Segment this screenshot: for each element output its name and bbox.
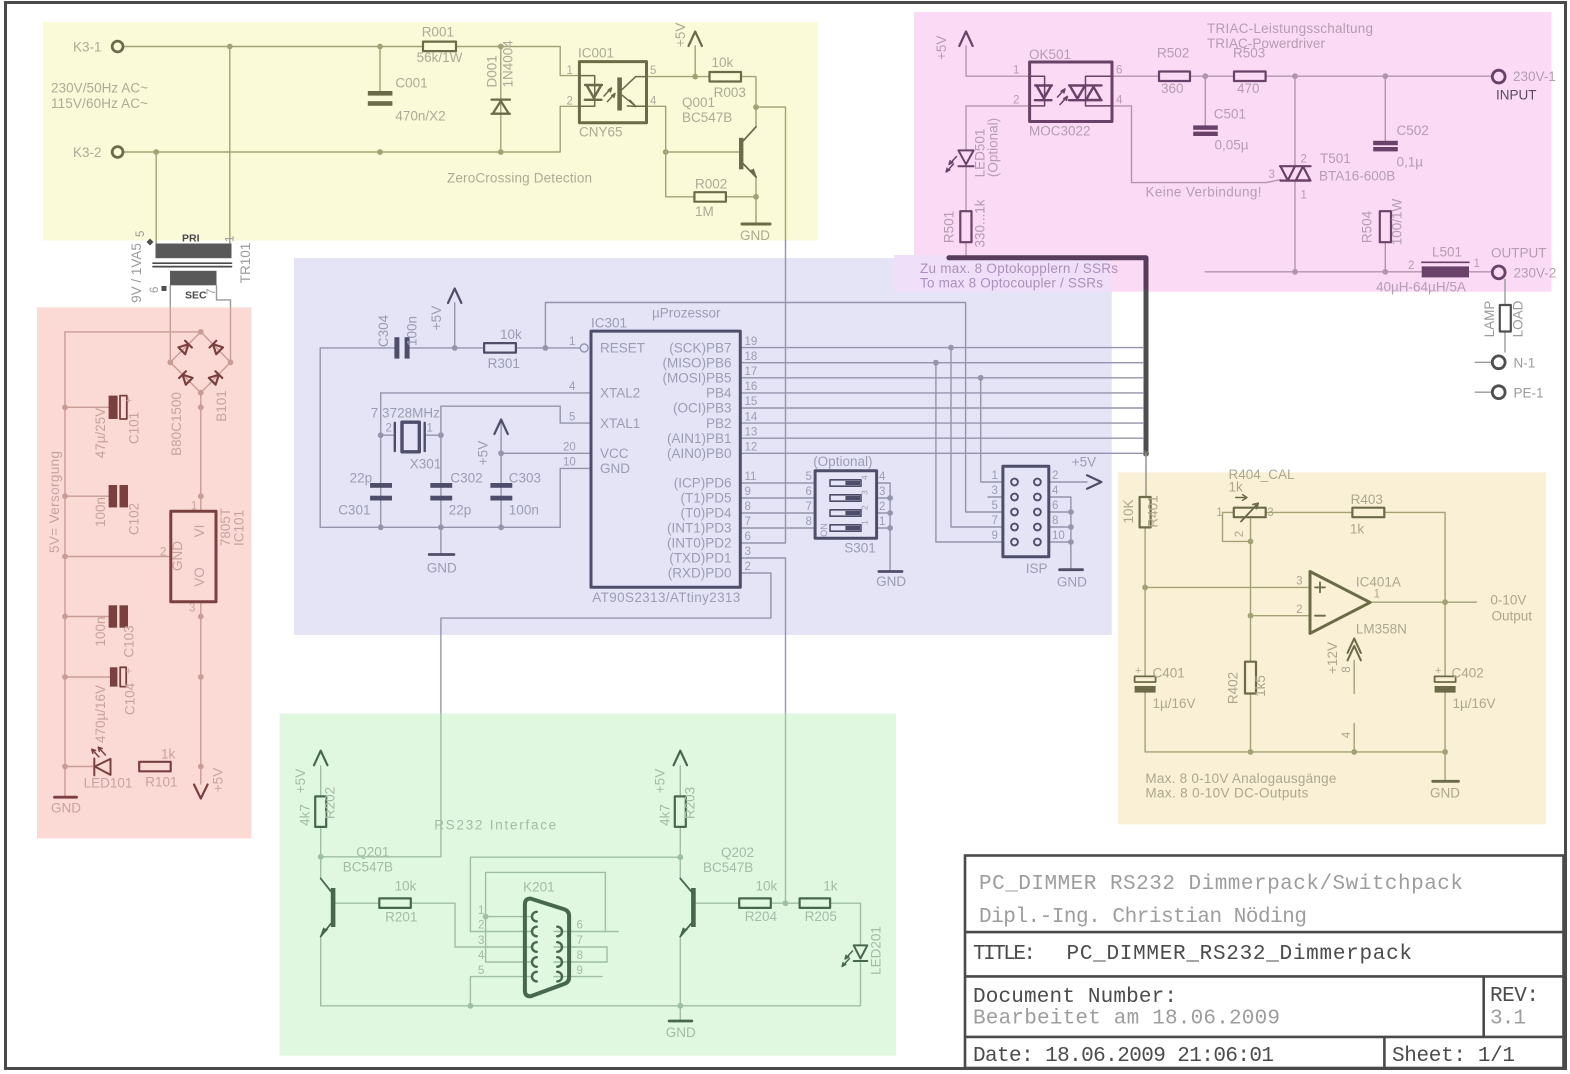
svg-text:56k/1W: 56k/1W (417, 50, 463, 65)
wire IC101 pin2 GND row (65, 556, 171, 558)
wire R402 to gnd rail (1250, 694, 1252, 752)
wire R501 to bus (965, 242, 967, 255)
optocoupler IC001 box (579, 62, 646, 123)
svg-text:PB2: PB2 (706, 416, 732, 431)
+5V arrow yellow (689, 32, 702, 47)
wire T501 pin1 (1294, 181, 1296, 272)
wire C101 row (65, 406, 109, 408)
svg-text:K201: K201 (523, 879, 555, 894)
svg-text:LOAD: LOAD (1511, 300, 1526, 337)
svg-text:MOC3022: MOC3022 (1029, 123, 1091, 138)
triac T501 (1280, 166, 1311, 180)
svg-text:2: 2 (1301, 154, 1307, 166)
wire +5V R202 (320, 766, 322, 797)
pin header ISP box (1003, 466, 1049, 556)
svg-text:230V-2: 230V-2 (1514, 265, 1557, 280)
svg-text:6: 6 (745, 531, 751, 543)
wire D001 branch (500, 47, 502, 153)
resistor R002 (694, 192, 726, 202)
wire X301 pin1 column (440, 406, 442, 527)
svg-text:47µ/25V: 47µ/25V (93, 408, 108, 459)
svg-text:6: 6 (1116, 65, 1122, 77)
wire K201 pin8 stub (554, 961, 607, 963)
wire gnd rail bottom (320, 526, 560, 528)
svg-text:7: 7 (992, 515, 998, 527)
diode D001 (492, 100, 511, 114)
+5V arrow C303 (494, 420, 507, 435)
wire C502 branch (1384, 76, 1386, 141)
S301 switch 2 (830, 510, 861, 516)
title block REV divider (1482, 976, 1485, 1037)
svg-text:100/1W: 100/1W (1390, 198, 1405, 245)
wire C304 to R301 (410, 347, 484, 349)
svg-text:2: 2 (386, 423, 392, 435)
svg-text:VO: VO (192, 567, 207, 587)
svg-text:(INT0)PD2: (INT0)PD2 (667, 536, 732, 551)
wire -in node to R402 (1250, 616, 1252, 662)
wire PD6 to S301 (740, 482, 815, 484)
region background: TRIAC pink (914, 12, 1552, 292)
svg-text:R504: R504 (1360, 210, 1375, 243)
microcontroller IC301 box (591, 331, 740, 587)
wire K201 pin7 stub (554, 946, 607, 948)
wire ISP tap SCK (951, 348, 1003, 527)
svg-text:OUTPUT: OUTPUT (1491, 245, 1547, 260)
svg-text:12: 12 (745, 442, 758, 454)
svg-text:GND: GND (1430, 786, 1460, 801)
svg-text:(AIN1)PB1: (AIN1)PB1 (667, 431, 732, 446)
svg-text:(TXD)PD1: (TXD)PD1 (669, 551, 731, 566)
wire GND pin10 (560, 468, 591, 527)
svg-text:TRIAC-Powerdriver: TRIAC-Powerdriver (1207, 36, 1326, 51)
svg-text:1µ/16V: 1µ/16V (1453, 696, 1496, 711)
svg-text:C302: C302 (450, 471, 482, 486)
svg-text:1: 1 (569, 336, 575, 348)
wire R502 to R503 (1190, 75, 1234, 77)
svg-text:1: 1 (992, 470, 998, 482)
svg-text:B80C1500: B80C1500 (169, 392, 184, 456)
capacitor C303 (490, 483, 512, 501)
svg-text:GND: GND (876, 574, 906, 589)
S301 switch 3 (830, 495, 861, 501)
svg-text:XTAL2: XTAL2 (600, 386, 640, 401)
svg-text:360: 360 (1161, 81, 1184, 96)
svg-text:3.1: 3.1 (1490, 1008, 1526, 1031)
region background: note lavender (894, 255, 1112, 292)
svg-text:1k: 1k (161, 746, 176, 761)
svg-text:(Optional): (Optional) (813, 454, 872, 469)
svg-text:LED201: LED201 (869, 926, 884, 975)
resistor R402 (1245, 662, 1256, 694)
capacitor C402 (1435, 676, 1456, 682)
svg-text:8: 8 (1052, 515, 1058, 527)
wire LED501 to R501 (965, 168, 967, 212)
wire Q201 emitter (320, 937, 322, 1006)
svg-text:C501: C501 (1214, 106, 1246, 121)
transformer TR101 core (153, 263, 232, 266)
bus end dot (1143, 451, 1149, 457)
svg-text:16: 16 (745, 381, 758, 393)
wire gnd rail analog (1145, 751, 1445, 753)
svg-text:8: 8 (745, 501, 751, 513)
wire PB2 line (740, 422, 1143, 424)
svg-text:+5V: +5V (673, 23, 688, 47)
wire K201 pin9 stub (554, 976, 602, 978)
svg-text:Max. 8 0-10V Analogausgänge: Max. 8 0-10V Analogausgänge (1145, 771, 1336, 786)
ground GND analog (1433, 780, 1459, 783)
terminal 230V-2 (1492, 266, 1505, 279)
svg-text:6: 6 (149, 287, 161, 293)
resistor R003 (710, 72, 742, 82)
wire PD2 from zerocross (740, 241, 785, 544)
svg-text:CNY65: CNY65 (579, 125, 623, 140)
svg-text:1M: 1M (695, 204, 714, 219)
svg-text:1: 1 (225, 236, 237, 242)
S301 switch digits (860, 475, 870, 525)
wire IC001 pin5 to R003 (647, 76, 710, 78)
svg-text:ON: ON (819, 523, 829, 537)
svg-text:1: 1 (1216, 507, 1222, 519)
svg-text:RS232 Interface: RS232 Interface (434, 817, 556, 832)
svg-text:R205: R205 (805, 909, 837, 924)
terminal 230V-1 (1492, 70, 1505, 83)
svg-text:C104: C104 (123, 682, 138, 715)
svg-text:3: 3 (1269, 169, 1275, 181)
svg-text:BC547B: BC547B (703, 860, 753, 875)
wire R401 to +in node (1144, 527, 1146, 587)
wire Q201 collector (320, 857, 322, 879)
svg-text:Q001: Q001 (682, 95, 715, 110)
svg-text:18: 18 (745, 351, 758, 363)
ground GND C302 (429, 553, 454, 556)
svg-text:GND: GND (1057, 574, 1087, 589)
terminal PE-1 (1492, 386, 1505, 399)
svg-text:22p: 22p (449, 503, 472, 518)
wire pin7 pin8 tie (606, 947, 608, 962)
svg-text:Output: Output (1492, 609, 1533, 624)
svg-text:5V= Versorgung: 5V= Versorgung (47, 451, 62, 553)
svg-text:2: 2 (478, 920, 484, 932)
op-amp IC401A (1310, 572, 1370, 634)
svg-text:4: 4 (1116, 94, 1123, 106)
svg-text:(OCI)PB3: (OCI)PB3 (673, 401, 732, 416)
wire C104 row (65, 676, 110, 678)
bridge diamond outline (170, 332, 230, 393)
svg-text:Dipl.-Ing. Christian Nöding: Dipl.-Ing. Christian Nöding (979, 906, 1307, 929)
+5V arrow R202 (314, 751, 327, 766)
RESET bubble (580, 344, 588, 352)
svg-text:0,05µ: 0,05µ (1215, 138, 1249, 153)
svg-text:C101: C101 (127, 412, 142, 444)
OK501 internal LED (1030, 76, 1045, 106)
svg-text:17: 17 (745, 366, 758, 378)
svg-text:5: 5 (806, 471, 812, 483)
OK501 internal triac (1086, 76, 1113, 106)
svg-text:BC547B: BC547B (343, 860, 393, 875)
svg-text:XTAL1: XTAL1 (600, 416, 640, 431)
wire +5V to OK501 pin1 (966, 46, 1030, 76)
wire ISP right tie (1049, 497, 1071, 569)
wire base node down to R002 (666, 152, 695, 197)
svg-text:10k: 10k (712, 55, 734, 70)
svg-text:+5V: +5V (293, 769, 308, 793)
svg-text:R101: R101 (145, 774, 177, 789)
svg-text:C401: C401 (1153, 666, 1185, 681)
resistor R101 (139, 762, 171, 772)
wire Q202 collector (679, 857, 681, 878)
voltage regulator IC101 (171, 511, 216, 602)
wire PD1 drop green (785, 714, 787, 904)
transformer TR101 primary winding (156, 244, 232, 259)
svg-text:1: 1 (1374, 588, 1380, 600)
svg-text:IC401A: IC401A (1356, 574, 1401, 589)
wire PRI drop 1 (229, 47, 231, 244)
svg-text:3: 3 (478, 935, 484, 947)
wire L501 to 230V-2 (1469, 271, 1492, 273)
svg-text:Sheet: 1/1: Sheet: 1/1 (1392, 1045, 1515, 1068)
svg-text:4: 4 (478, 950, 485, 962)
svg-text:100n: 100n (93, 497, 108, 527)
wire R504 to output rail (1384, 242, 1386, 271)
svg-text:OK501: OK501 (1029, 47, 1071, 62)
svg-text:1: 1 (879, 516, 885, 528)
svg-text:4: 4 (650, 96, 657, 108)
capacitor C102 (109, 485, 128, 507)
svg-text:(Optional): (Optional) (986, 118, 1001, 177)
K201 pin hooks (532, 912, 562, 982)
wire C102 row (65, 495, 109, 497)
svg-text:D001: D001 (485, 55, 500, 87)
wire GND stem rail (64, 767, 66, 797)
ISP pin rings (1011, 479, 1041, 546)
wire R404 pin1 loop (1223, 512, 1251, 541)
wire PB4 line (740, 392, 1143, 394)
svg-text:R201: R201 (385, 909, 417, 924)
svg-text:9: 9 (745, 486, 751, 498)
svg-text:BC547B: BC547B (682, 110, 732, 125)
wire PB6 line (740, 362, 1143, 364)
resistor R001 (423, 42, 456, 52)
svg-text:230V-1: 230V-1 (1513, 69, 1556, 84)
wire ISP tap MISO (936, 363, 1003, 542)
svg-text:µProzessor: µProzessor (652, 306, 721, 321)
svg-text:K3-2: K3-2 (73, 145, 102, 160)
svg-text:(T0)PD4: (T0)PD4 (680, 506, 731, 521)
svg-text:230V/50Hz AC~: 230V/50Hz AC~ (51, 80, 148, 95)
svg-text:R403: R403 (1351, 492, 1383, 507)
svg-text:2: 2 (879, 501, 885, 513)
wire OK501 pin4 to T501 gate (1112, 106, 1281, 183)
svg-text:LAMP: LAMP (1482, 301, 1497, 338)
wire bridge top to left rail (65, 331, 201, 333)
wire K201 pin2 to Q202 collector (470, 857, 680, 931)
wire -in (1251, 615, 1311, 617)
resistor R301 (484, 343, 516, 353)
junction dots pink (1202, 73, 1208, 79)
svg-text:4k7: 4k7 (298, 804, 313, 826)
terminal K3-1 (112, 41, 123, 52)
wire +5V stem (694, 46, 696, 77)
wire +5V stem R301 (454, 303, 456, 348)
transistor Q202 (691, 888, 696, 927)
resistor R205 (800, 898, 831, 908)
svg-text:1µ/16V: 1µ/16V (1153, 696, 1196, 711)
+5V arrow down red (194, 785, 208, 799)
wire R205 to LED201 (830, 903, 860, 944)
resistor R504 (1380, 211, 1391, 242)
title block Sheet divider (1383, 1037, 1386, 1069)
wire PB3 line (740, 407, 1143, 409)
title block row line 3 (965, 1036, 1564, 1039)
svg-text:2: 2 (1296, 604, 1302, 616)
svg-text:R001: R001 (422, 25, 454, 40)
svg-text:100n: 100n (93, 616, 108, 646)
LED201 light arrows (842, 951, 852, 967)
+5V arrow ISP (1087, 475, 1101, 488)
wire SEC left into bridge (169, 307, 171, 362)
svg-text:4: 4 (569, 381, 576, 393)
+5V arrow R203 (674, 751, 687, 766)
resistor R401 (1140, 497, 1151, 527)
svg-text:BTA16-600B: BTA16-600B (1319, 168, 1395, 183)
wire IC001 pin4 to base node (647, 106, 740, 152)
title block outer box (965, 856, 1564, 1069)
svg-text:AT90S2313/ATtiny2313: AT90S2313/ATtiny2313 (592, 590, 740, 605)
wire PD3 to S301 (740, 527, 815, 529)
svg-text:22p: 22p (350, 471, 373, 486)
capacitor C501 (1193, 125, 1218, 136)
wire ISP pin10 stub (1049, 541, 1071, 543)
wire GND stem Q202 (679, 1006, 681, 1020)
svg-text:13: 13 (745, 426, 758, 438)
svg-text:0-10V: 0-10V (1490, 592, 1526, 607)
svg-text:To max 8 Optocoupler / SSRs: To max 8 Optocoupler / SSRs (920, 275, 1103, 290)
resistor R202 (315, 796, 326, 827)
svg-text:1: 1 (1301, 190, 1307, 202)
LED LED201 (854, 945, 868, 961)
svg-text:C502: C502 (1397, 123, 1429, 138)
wire ISP tap MOSI (981, 378, 1003, 482)
svg-text:GND: GND (427, 561, 457, 576)
wire N-1 stub (1475, 361, 1492, 363)
transformer TR101 secondary winding (170, 271, 217, 286)
LED101 light arrows (92, 747, 106, 757)
svg-text:GND: GND (51, 801, 81, 816)
svg-text:PE-1: PE-1 (1514, 385, 1544, 400)
svg-text:GND: GND (600, 461, 630, 476)
svg-text:10: 10 (1052, 530, 1065, 542)
svg-text:IC101: IC101 (232, 510, 247, 546)
bus to optocouplers (pink part) (949, 258, 1146, 292)
svg-text:R402: R402 (1225, 672, 1240, 704)
svg-text:1: 1 (860, 520, 870, 525)
svg-text:4: 4 (1341, 731, 1353, 738)
svg-text:LED101: LED101 (84, 776, 133, 791)
transformer pin marker 6 (162, 286, 167, 291)
wire Q201 base to R201 (336, 902, 380, 904)
wire C304 left branch to gnd rail (320, 348, 395, 527)
resistor R203 (675, 796, 686, 827)
capacitor C101 (109, 396, 118, 419)
svg-text:2: 2 (745, 561, 751, 573)
svg-text:C102: C102 (127, 503, 142, 535)
terminal N-1 (1492, 356, 1505, 369)
svg-text:8: 8 (577, 950, 583, 962)
wire PD0 to RS232 (441, 573, 771, 714)
wire bus to R401 (1145, 454, 1147, 497)
svg-text:C103: C103 (122, 625, 137, 657)
svg-text:(SCK)PB7: (SCK)PB7 (669, 340, 731, 355)
svg-text:(T1)PD5: (T1)PD5 (680, 491, 731, 506)
wire pin4 (1353, 724, 1355, 752)
wire ISP pin2 +5V (1049, 481, 1087, 483)
svg-text:1k5: 1k5 (1253, 675, 1268, 697)
junction dots blue (452, 345, 458, 351)
wire PE-1 stub (1475, 391, 1492, 393)
svg-text:5: 5 (650, 65, 656, 77)
svg-text:S301: S301 (844, 541, 876, 556)
capacitor C304 (394, 337, 409, 358)
svg-text:3: 3 (860, 490, 870, 495)
svg-text:1N4004: 1N4004 (501, 40, 516, 88)
svg-text:(RXD)PD0: (RXD)PD0 (668, 566, 732, 581)
wire pin1 tie to pin6 (486, 872, 606, 931)
wire pin1 tie to pin4 (486, 917, 531, 962)
wire K201 pin6 stub (554, 931, 618, 933)
wire +in (1145, 586, 1310, 588)
svg-text:8: 8 (806, 516, 812, 528)
svg-text:1: 1 (427, 423, 433, 435)
ground GND Q202 (669, 1020, 692, 1023)
wire R403 to feedback (1384, 512, 1445, 602)
svg-text:470: 470 (1237, 81, 1260, 96)
wire left rail (64, 332, 66, 767)
OK501 light arrow (1058, 89, 1068, 105)
svg-text:X301: X301 (410, 457, 442, 472)
svg-text:+: + (126, 666, 132, 678)
svg-text:C303: C303 (509, 471, 541, 486)
transistor Q201 (331, 888, 336, 927)
junction dots yellow (227, 44, 233, 50)
svg-text:1: 1 (478, 905, 484, 917)
wire opamp output (1370, 601, 1476, 603)
wire +5V column bottom (200, 677, 202, 784)
bridge rectifier B101 diodes (178, 341, 191, 354)
+5V arrow R301 (448, 289, 461, 304)
svg-text:4: 4 (1052, 485, 1059, 497)
wire PB7 line (740, 347, 1143, 349)
wire C001 branch (379, 47, 381, 91)
svg-text:7: 7 (745, 516, 751, 528)
svg-text:14: 14 (745, 411, 758, 423)
svg-text:1k: 1k (1229, 480, 1244, 495)
K201 pin numbers (478, 905, 583, 977)
+12V arrow (1348, 638, 1361, 660)
svg-text:Max. 8 0-10V DC-Outputs: Max. 8 0-10V DC-Outputs (1145, 785, 1308, 800)
junction dots green (318, 854, 324, 860)
capacitor C103 (109, 605, 128, 627)
wire OK501 pin6 to R502 (1112, 75, 1159, 77)
svg-text:11: 11 (745, 471, 757, 483)
wire R204 to R205 (771, 902, 800, 904)
svg-text:0,1µ: 0,1µ (1397, 155, 1424, 170)
svg-text:10: 10 (563, 457, 576, 469)
svg-text:7: 7 (806, 501, 812, 513)
wire K3-2 bottom AC rail (123, 106, 579, 152)
svg-text:T501: T501 (1320, 151, 1351, 166)
svg-text:3: 3 (189, 603, 195, 615)
capacitor C502 (1373, 141, 1398, 152)
